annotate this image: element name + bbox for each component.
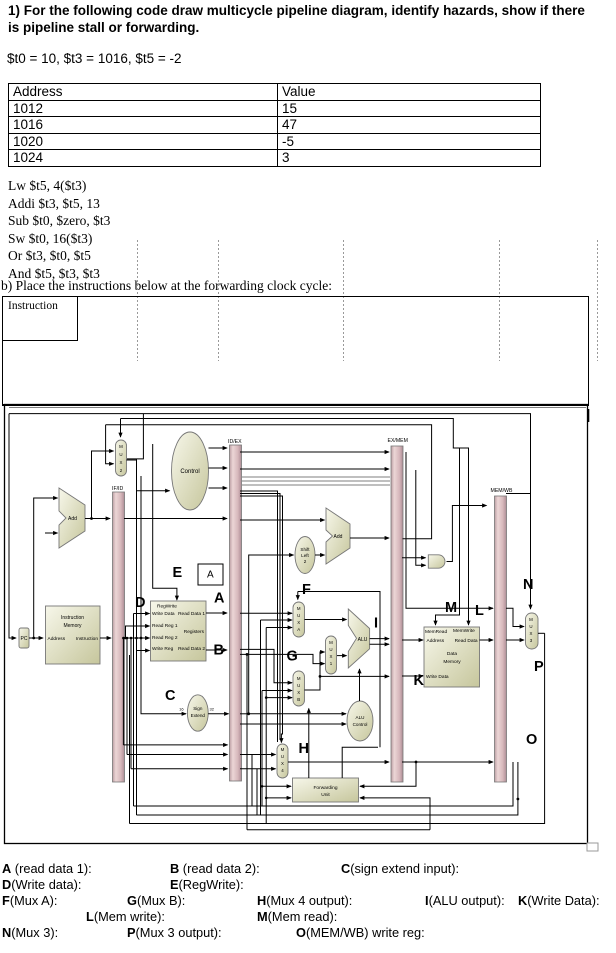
svg-text:EX/MEM: EX/MEM — [388, 438, 408, 444]
svg-text:Read Reg 1: Read Reg 1 — [152, 623, 178, 629]
svg-text:ALU: ALU — [358, 637, 368, 643]
svg-text:C: C — [165, 688, 176, 704]
svg-text:Write Data: Write Data — [152, 611, 175, 617]
svg-text:Shift: Shift — [300, 547, 310, 552]
svg-text:Add: Add — [68, 516, 77, 522]
svg-text:A: A — [214, 591, 225, 607]
svg-text:L: L — [475, 603, 484, 619]
svg-text:RegWrite: RegWrite — [157, 604, 177, 610]
svg-text:Read Data 1: Read Data 1 — [178, 611, 205, 617]
svg-text:Address: Address — [48, 636, 66, 642]
svg-text:IF/ID: IF/ID — [112, 486, 123, 492]
svg-text:X: X — [330, 654, 333, 659]
svg-text:Memory: Memory — [443, 659, 461, 665]
svg-text:Sign: Sign — [193, 706, 203, 711]
svg-text:X: X — [297, 620, 300, 625]
svg-text:PC: PC — [21, 636, 28, 642]
svg-text:M: M — [329, 640, 333, 645]
svg-text:G: G — [287, 649, 298, 665]
svg-text:Address: Address — [427, 638, 445, 644]
svg-text:U: U — [329, 647, 332, 652]
svg-text:K: K — [414, 673, 425, 689]
svg-text:I: I — [374, 616, 378, 632]
svg-text:M: M — [281, 747, 285, 752]
svg-text:Read Data: Read Data — [455, 638, 478, 644]
svg-text:Instruction: Instruction — [61, 615, 84, 621]
svg-text:Left: Left — [301, 553, 309, 558]
svg-text:U: U — [297, 683, 300, 688]
svg-text:B: B — [297, 697, 300, 702]
svg-text:X: X — [120, 460, 123, 465]
svg-text:Data: Data — [447, 651, 457, 657]
svg-text:F: F — [302, 582, 311, 598]
svg-text:M: M — [529, 617, 533, 622]
svg-text:U: U — [281, 754, 284, 759]
svg-text:M: M — [119, 444, 123, 449]
svg-text:32: 32 — [210, 707, 215, 712]
svg-text:A: A — [297, 627, 300, 632]
svg-text:Instruction: Instruction — [76, 636, 98, 642]
svg-text:ALU: ALU — [356, 715, 365, 720]
svg-text:E: E — [173, 565, 183, 581]
svg-text:H: H — [299, 741, 309, 757]
svg-text:M: M — [297, 676, 301, 681]
svg-text:Read Reg 2: Read Reg 2 — [152, 635, 178, 641]
svg-text:Extend: Extend — [191, 713, 206, 718]
svg-text:O: O — [526, 732, 537, 748]
svg-text:X: X — [530, 631, 533, 636]
svg-text:N: N — [523, 577, 533, 593]
svg-text:Read Data 2: Read Data 2 — [178, 646, 205, 652]
svg-text:Write Data: Write Data — [426, 674, 449, 680]
svg-text:Add: Add — [334, 534, 343, 540]
svg-text:ID/EX: ID/EX — [228, 439, 242, 445]
svg-text:U: U — [529, 624, 532, 629]
svg-text:U: U — [297, 613, 300, 618]
svg-text:A: A — [207, 570, 214, 581]
svg-text:Unit: Unit — [321, 792, 330, 798]
svg-text:16: 16 — [179, 707, 184, 712]
svg-text:Memory: Memory — [63, 623, 82, 629]
svg-text:2: 2 — [304, 559, 307, 564]
svg-text:Control: Control — [353, 722, 368, 727]
svg-text:M: M — [297, 606, 301, 611]
svg-text:U: U — [119, 452, 122, 457]
svg-text:P: P — [534, 659, 544, 675]
svg-text:X: X — [281, 761, 284, 766]
svg-text:Registers: Registers — [184, 629, 205, 635]
svg-text:Forwarding: Forwarding — [314, 785, 338, 791]
svg-text:X: X — [297, 690, 300, 695]
svg-text:Write Reg: Write Reg — [152, 646, 174, 652]
svg-text:MemRead: MemRead — [425, 629, 447, 635]
svg-text:MemWrite: MemWrite — [453, 628, 475, 634]
svg-text:Control: Control — [180, 469, 199, 475]
